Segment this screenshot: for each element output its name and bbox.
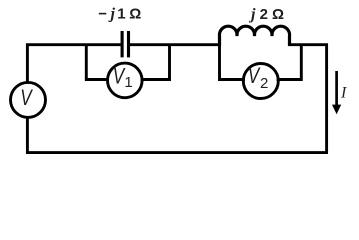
wire V1 branch left vertical and stub [86,45,109,80]
wire V2 branch right stub and vertical [277,45,302,80]
wire V1 branch right stub and vertical [141,45,170,80]
voltage source V circle [11,82,46,117]
current arrow I shaft [335,71,338,107]
wire bottom return segment [27,117,328,153]
voltmeter V1 circle [108,63,143,98]
svg-text:I: I [340,85,347,102]
svg-text:j2Ω: j2Ω [248,6,284,23]
svg-text:−j1Ω: −j1Ω [98,6,141,23]
current arrow I head [332,105,341,115]
wire top-middle segment (capacitor to inductor) [130,43,222,46]
svg-text:1: 1 [124,74,132,91]
svg-text:V: V [248,64,261,89]
wire top-left segment (source V to capacitor) [27,45,120,83]
capacitor C1 (-j1 ohm) plates [122,31,128,57]
wire top-right segment and right side down [289,45,327,153]
svg-text:V: V [20,86,33,111]
voltmeter V2 circle [243,64,278,99]
svg-text:2: 2 [260,75,268,92]
inductor L1 (j2 ohm) coil [219,26,289,46]
wire V2 branch left vertical and stub [220,45,246,80]
